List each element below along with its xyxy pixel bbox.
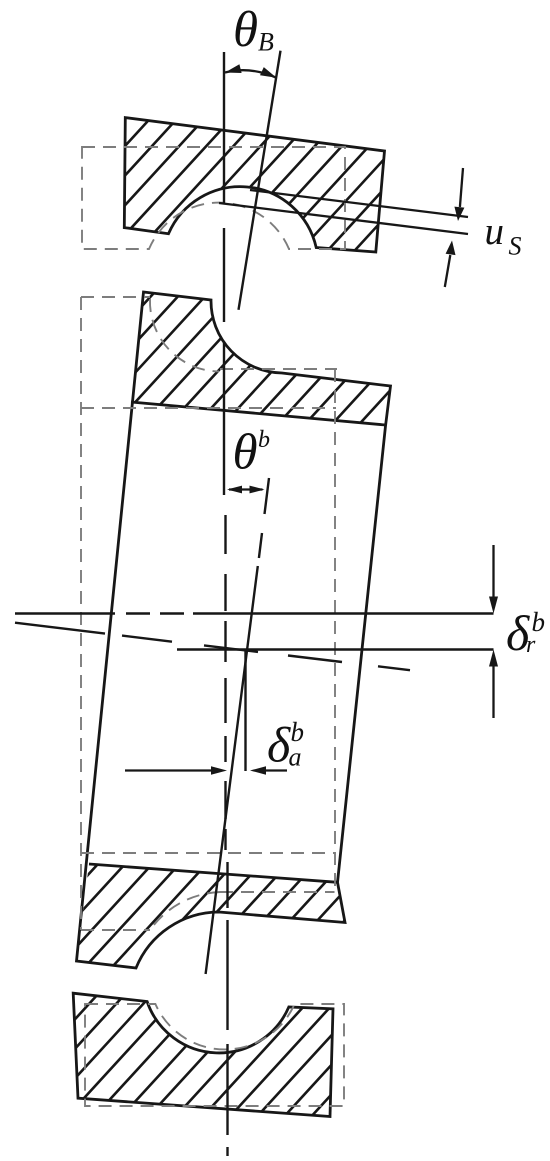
theta_B arc arrow (225, 70, 277, 78)
original vertical centerline (223, 52, 225, 495)
u_S dimension arrows (460, 168, 463, 207)
svg-text:a: a (289, 743, 302, 772)
inner ring top flange bottom boundary (131, 402, 386, 425)
u_S reference line from original groove apex (219, 203, 468, 234)
dashed original position: outer ring bottom half (85, 1004, 344, 1106)
inner ring bottom flange hatching (0, 604, 525, 1161)
svg-text:θ: θ (233, 425, 258, 481)
dashed original position: inner ring assembly (81, 297, 337, 930)
theta^b double arrow (229, 488, 263, 490)
outer ring top half (solid, tilted) (124, 118, 384, 252)
inner ring bottom flange top boundary (89, 864, 338, 882)
inner ring assembly (solid, tilted) silhouette (77, 292, 391, 968)
inner ring tilted centerline (206, 478, 269, 974)
tilted axis (dash) (15, 623, 410, 671)
outer ring bottom half (solid, tilted) (73, 993, 333, 1116)
svg-text:B: B (258, 28, 274, 57)
outer ring tilted centerline (239, 51, 281, 310)
u_S reference line from displaced groove apex (250, 190, 468, 217)
svg-text:r: r (526, 632, 536, 658)
svg-text:S: S (509, 232, 522, 261)
delta_r dimension arrows (492, 545, 494, 597)
original horizontal axis (15, 612, 494, 614)
svg-text:θ: θ (233, 2, 258, 58)
svg-text:δ: δ (267, 717, 291, 773)
svg-text:u: u (485, 210, 505, 253)
displaced horizontal reference line (through displaced centre) (177, 648, 494, 650)
dashed original position: outer ring top half (82, 147, 345, 249)
delta_a vertical tick at displaced centre axial station (244, 650, 246, 771)
inner ring top flange hatching (0, 19, 550, 697)
svg-text:b: b (258, 427, 270, 453)
outer ring bottom half hatching (0, 753, 508, 1161)
outer ring top half hatching (0, 0, 550, 496)
delta_a dimension arrows (125, 769, 212, 771)
